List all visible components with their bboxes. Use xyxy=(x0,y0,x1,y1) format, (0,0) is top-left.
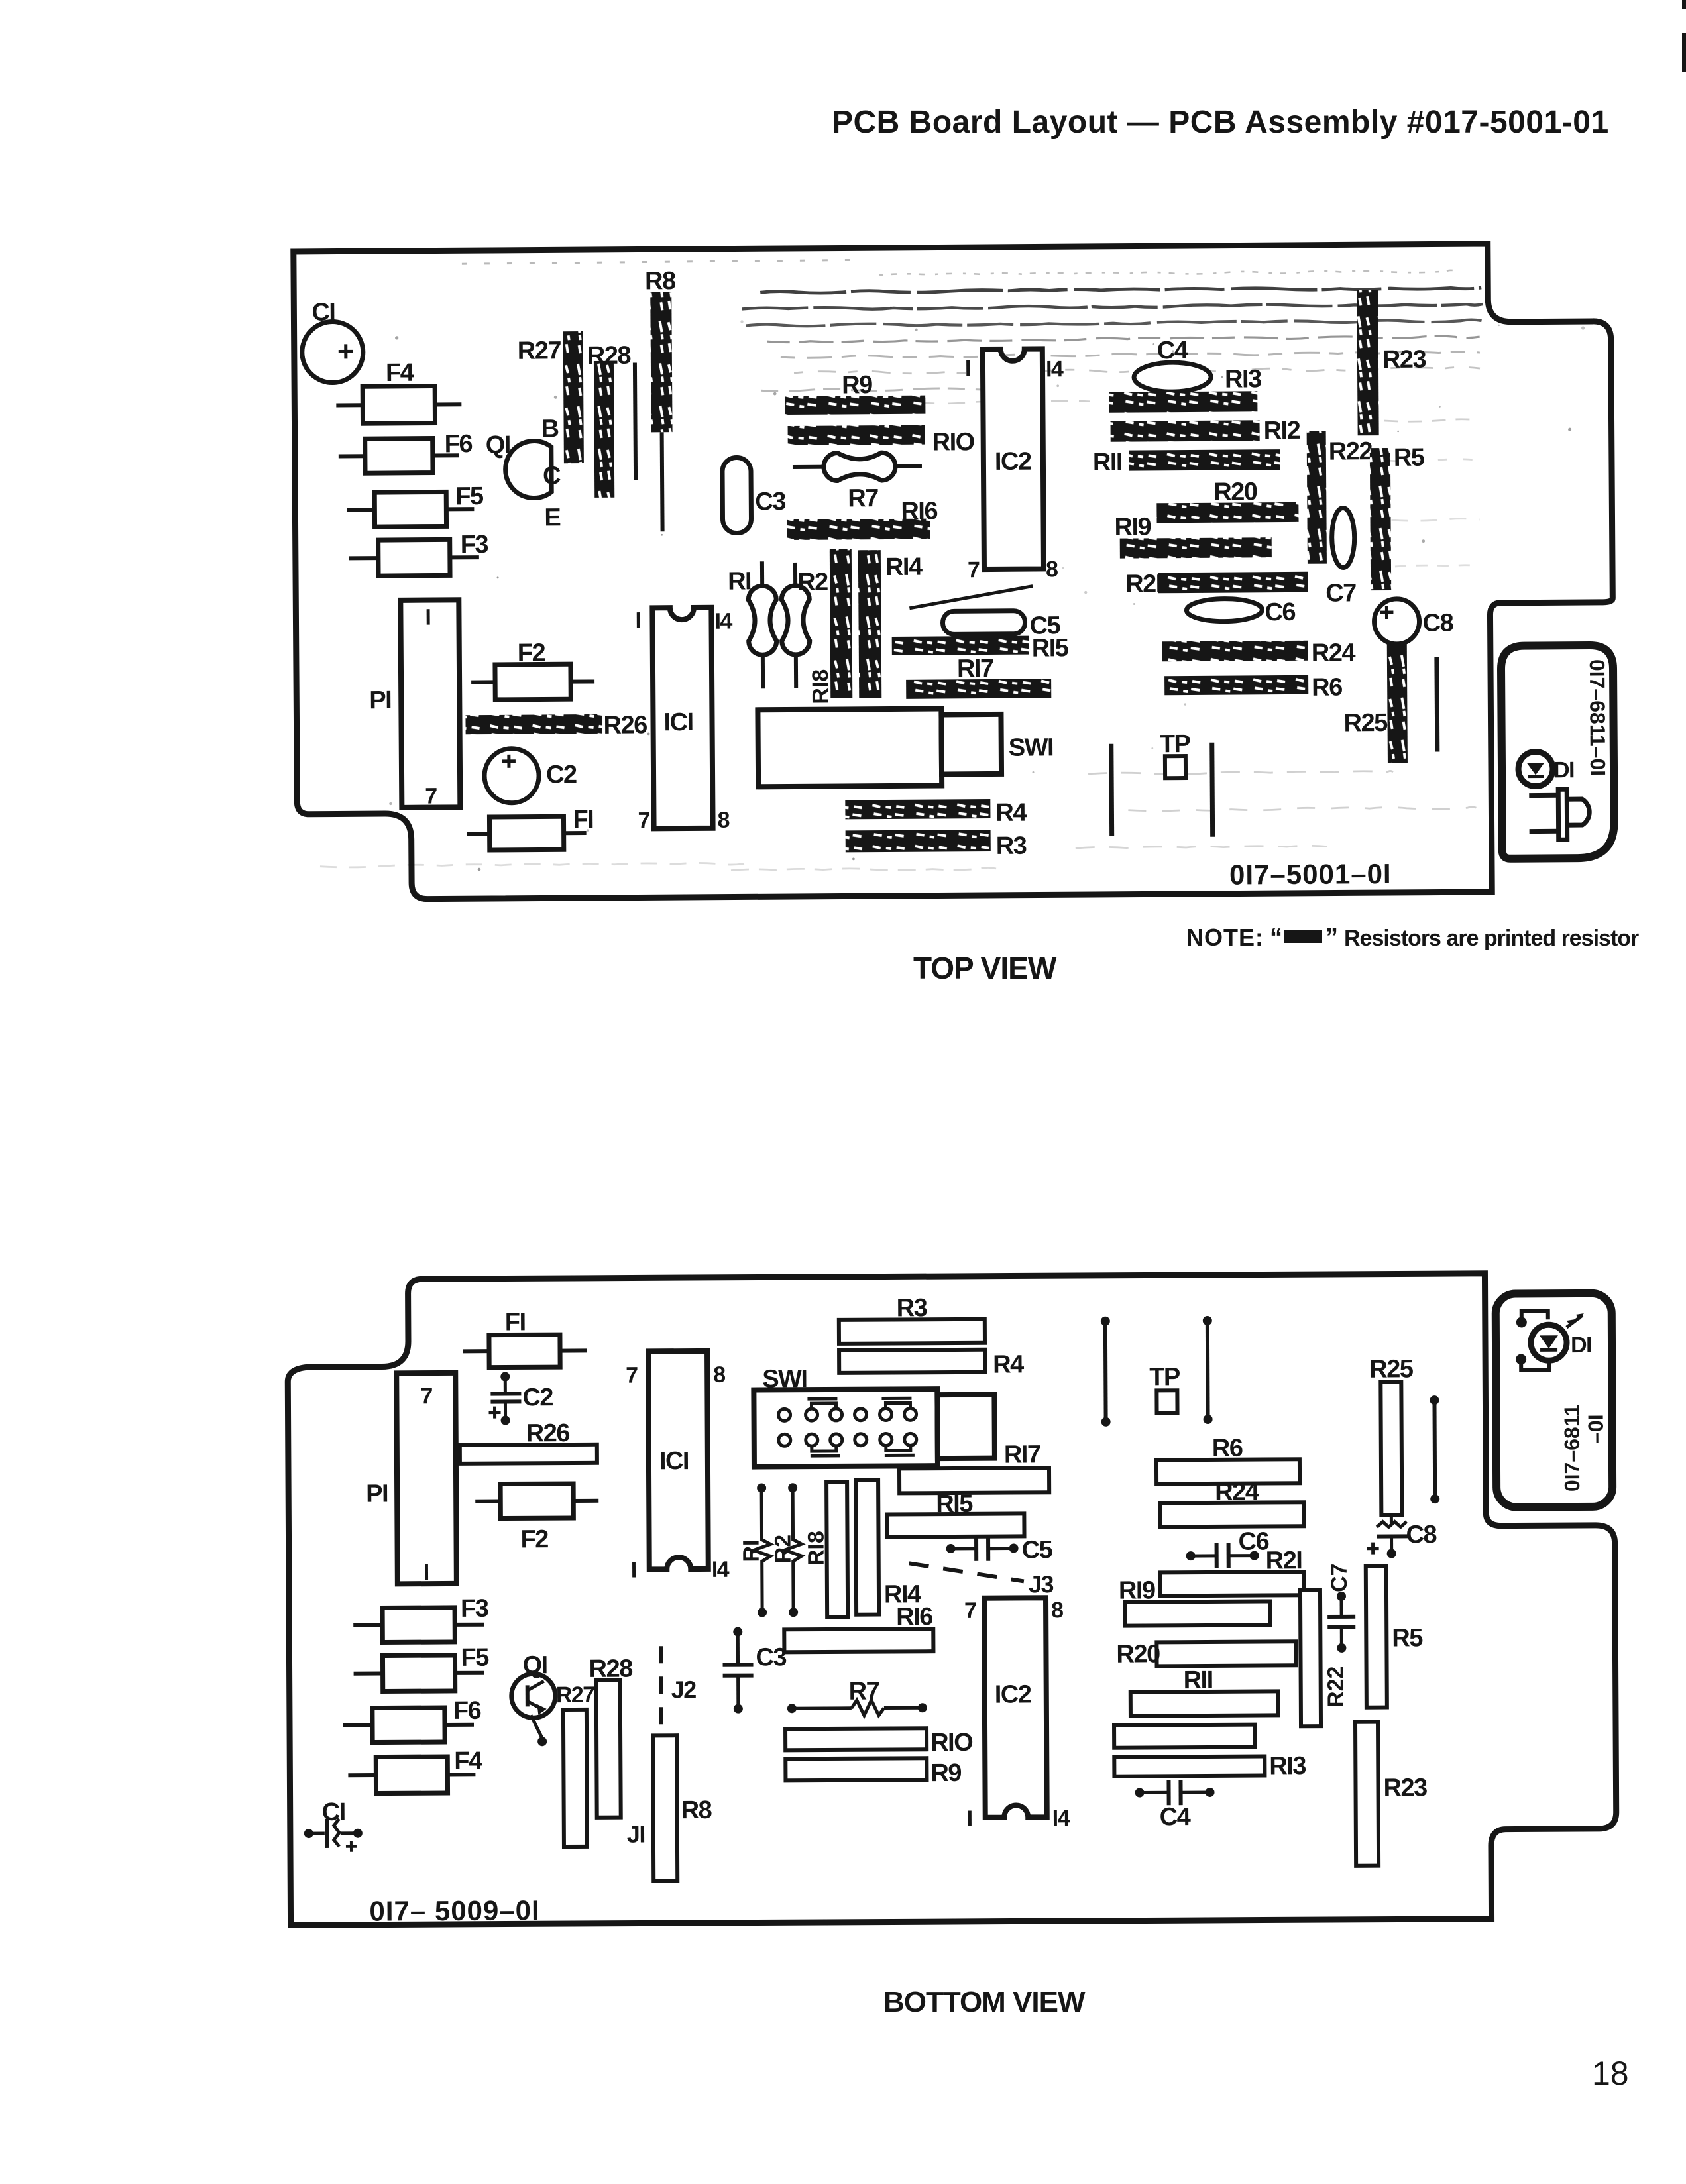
svg-text:8: 8 xyxy=(717,808,729,833)
svg-text:R20: R20 xyxy=(1213,478,1257,506)
svg-text:RI2: RI2 xyxy=(1263,417,1300,445)
svg-text:C6: C6 xyxy=(1264,598,1295,626)
svg-text:RI6: RI6 xyxy=(901,498,937,525)
svg-text:R2: R2 xyxy=(797,569,828,596)
svg-text:B: B xyxy=(541,415,558,443)
svg-text:RI6: RI6 xyxy=(896,1603,932,1631)
svg-text:RII: RII xyxy=(1093,449,1122,476)
svg-text:RI7: RI7 xyxy=(957,655,993,682)
svg-text:I4: I4 xyxy=(1052,1806,1070,1831)
svg-text:Resistors are printed resistor: Resistors are printed resistor xyxy=(1344,926,1639,951)
svg-text:C5: C5 xyxy=(1022,1536,1053,1564)
svg-text:R4: R4 xyxy=(993,1350,1024,1378)
svg-text:DI: DI xyxy=(1571,1333,1591,1358)
svg-text:R7: R7 xyxy=(849,1678,879,1706)
svg-text:RII: RII xyxy=(1184,1666,1213,1694)
svg-text:R26: R26 xyxy=(526,1419,570,1447)
svg-text:RI5: RI5 xyxy=(936,1490,973,1518)
svg-text:C4: C4 xyxy=(1160,1803,1191,1831)
svg-text:8: 8 xyxy=(713,1362,725,1388)
svg-text:RI3: RI3 xyxy=(1225,365,1261,393)
svg-text:QI: QI xyxy=(486,431,510,459)
svg-text:8: 8 xyxy=(1051,1598,1063,1623)
svg-text:F6: F6 xyxy=(445,430,473,458)
svg-text:C7: C7 xyxy=(1325,579,1356,607)
svg-text:–0I: –0I xyxy=(1584,1414,1608,1444)
svg-text:18: 18 xyxy=(1592,2055,1629,2092)
svg-text:ICI: ICI xyxy=(663,708,693,736)
svg-text:R25: R25 xyxy=(1343,709,1388,737)
svg-text:R22: R22 xyxy=(1329,437,1373,465)
svg-text:IC2: IC2 xyxy=(995,448,1031,476)
svg-text:F5: F5 xyxy=(455,482,484,510)
svg-text:RI9: RI9 xyxy=(1114,513,1151,541)
svg-text:F4: F4 xyxy=(454,1747,482,1775)
svg-text:I: I xyxy=(425,605,430,630)
svg-text:SWI: SWI xyxy=(762,1365,807,1393)
svg-text:0I7–5001–0I: 0I7–5001–0I xyxy=(1229,858,1392,891)
svg-text:R2: R2 xyxy=(771,1535,796,1564)
svg-text:FI: FI xyxy=(573,806,593,834)
svg-text:R2I: R2I xyxy=(1266,1547,1302,1574)
svg-text:R2I: R2I xyxy=(1125,570,1162,598)
svg-text:I: I xyxy=(635,608,640,633)
svg-text:F2: F2 xyxy=(520,1525,548,1553)
svg-text:C: C xyxy=(543,462,561,490)
svg-text:ICI: ICI xyxy=(659,1447,689,1475)
svg-text:C6: C6 xyxy=(1238,1527,1268,1555)
svg-text:CI: CI xyxy=(322,1798,345,1826)
svg-text:R24: R24 xyxy=(1312,639,1356,667)
svg-text:RIO: RIO xyxy=(930,1729,972,1757)
svg-text:7: 7 xyxy=(638,808,649,833)
svg-text:F5: F5 xyxy=(461,1644,489,1672)
svg-text:C3: C3 xyxy=(756,1643,786,1671)
svg-text:F3: F3 xyxy=(461,1595,488,1623)
svg-text:R25: R25 xyxy=(1369,1355,1414,1383)
svg-text:RI8: RI8 xyxy=(803,1531,828,1566)
svg-text:RI9: RI9 xyxy=(1119,1576,1155,1604)
svg-text:E: E xyxy=(544,504,560,531)
svg-text:I: I xyxy=(423,1560,429,1585)
svg-text:R26: R26 xyxy=(603,711,647,739)
svg-text:“: “ xyxy=(1270,924,1282,952)
svg-text:R20: R20 xyxy=(1116,1640,1160,1668)
svg-text:PI: PI xyxy=(369,686,391,714)
svg-text:F6: F6 xyxy=(453,1697,481,1725)
svg-text:R3: R3 xyxy=(996,832,1027,860)
svg-text:FI: FI xyxy=(505,1308,526,1336)
svg-text:RI8: RI8 xyxy=(808,669,833,704)
svg-text:JI: JI xyxy=(627,1820,645,1847)
svg-text:SWI: SWI xyxy=(1009,734,1054,761)
svg-text:I4: I4 xyxy=(712,1557,730,1582)
svg-text:R27: R27 xyxy=(556,1682,595,1708)
svg-text:I: I xyxy=(967,1806,972,1831)
svg-text:7: 7 xyxy=(425,784,437,809)
svg-text:R22: R22 xyxy=(1323,1666,1349,1708)
svg-text:C8: C8 xyxy=(1406,1521,1436,1549)
svg-text:I4: I4 xyxy=(714,609,732,634)
svg-text:IC2: IC2 xyxy=(995,1680,1031,1708)
svg-text:C4: C4 xyxy=(1157,337,1188,364)
svg-text:I: I xyxy=(631,1557,636,1582)
svg-text:7: 7 xyxy=(964,1598,976,1623)
svg-text:C8: C8 xyxy=(1422,609,1453,637)
svg-text:BOTTOM VIEW: BOTTOM VIEW xyxy=(883,1986,1086,2018)
svg-text:R7: R7 xyxy=(848,484,878,512)
svg-text:PI: PI xyxy=(366,1480,388,1507)
svg-text:QI: QI xyxy=(522,1651,547,1679)
svg-text:RI5: RI5 xyxy=(1032,634,1069,662)
svg-text:”: ” xyxy=(1325,924,1337,952)
svg-text:F4: F4 xyxy=(386,359,414,387)
svg-text:R9: R9 xyxy=(930,1759,961,1787)
svg-text:R3: R3 xyxy=(897,1294,927,1322)
svg-text:R5: R5 xyxy=(1392,1624,1423,1652)
svg-text:PCB Board Layout — PCB Assembl: PCB Board Layout — PCB Assembly #017-500… xyxy=(832,105,1609,140)
svg-text:DI: DI xyxy=(1553,757,1574,783)
svg-text:R28: R28 xyxy=(587,342,631,370)
svg-text:C7: C7 xyxy=(1327,1563,1352,1592)
svg-text:R27: R27 xyxy=(518,337,561,364)
svg-text:7: 7 xyxy=(968,557,980,582)
svg-text:RI: RI xyxy=(739,1539,764,1562)
svg-text:7: 7 xyxy=(420,1384,432,1409)
svg-text:R6: R6 xyxy=(1212,1435,1243,1462)
svg-text:0I7– 5009–0I: 0I7– 5009–0I xyxy=(369,1894,539,1926)
svg-text:0I7–6811–0I: 0I7–6811–0I xyxy=(1585,659,1610,776)
svg-text:R28: R28 xyxy=(589,1655,632,1683)
svg-text:R4: R4 xyxy=(995,799,1027,827)
svg-text:RI: RI xyxy=(728,567,751,595)
svg-text:F2: F2 xyxy=(518,639,545,667)
svg-text:7: 7 xyxy=(626,1362,638,1388)
svg-text:R23: R23 xyxy=(1382,346,1426,374)
svg-text:R6: R6 xyxy=(1312,673,1342,701)
svg-text:F3: F3 xyxy=(461,531,488,559)
svg-text:R23: R23 xyxy=(1383,1774,1427,1802)
svg-text:TP: TP xyxy=(1160,730,1191,758)
svg-text:C3: C3 xyxy=(755,488,785,516)
svg-text:I: I xyxy=(965,356,970,381)
svg-text:RIO: RIO xyxy=(932,428,974,456)
svg-text:RI4: RI4 xyxy=(885,553,923,581)
svg-text:R8: R8 xyxy=(681,1796,712,1824)
svg-text:CI: CI xyxy=(311,299,335,327)
svg-text:R9: R9 xyxy=(842,371,872,399)
svg-text:R8: R8 xyxy=(645,267,675,295)
svg-text:C2: C2 xyxy=(546,761,577,789)
svg-text:NOTE:: NOTE: xyxy=(1186,924,1264,951)
svg-text:R24: R24 xyxy=(1215,1478,1259,1506)
svg-text:I4: I4 xyxy=(1046,356,1064,382)
svg-text:RI3: RI3 xyxy=(1269,1752,1306,1780)
svg-text:R5: R5 xyxy=(1394,444,1425,472)
svg-text:RI7: RI7 xyxy=(1004,1441,1040,1468)
svg-text:8: 8 xyxy=(1046,557,1058,582)
svg-text:J2: J2 xyxy=(671,1676,697,1703)
svg-text:J3: J3 xyxy=(1029,1570,1054,1598)
svg-text:C2: C2 xyxy=(522,1384,553,1411)
svg-text:TOP VIEW: TOP VIEW xyxy=(913,951,1057,985)
svg-text:TP: TP xyxy=(1149,1363,1180,1391)
svg-text:0I7–6811: 0I7–6811 xyxy=(1559,1404,1584,1492)
